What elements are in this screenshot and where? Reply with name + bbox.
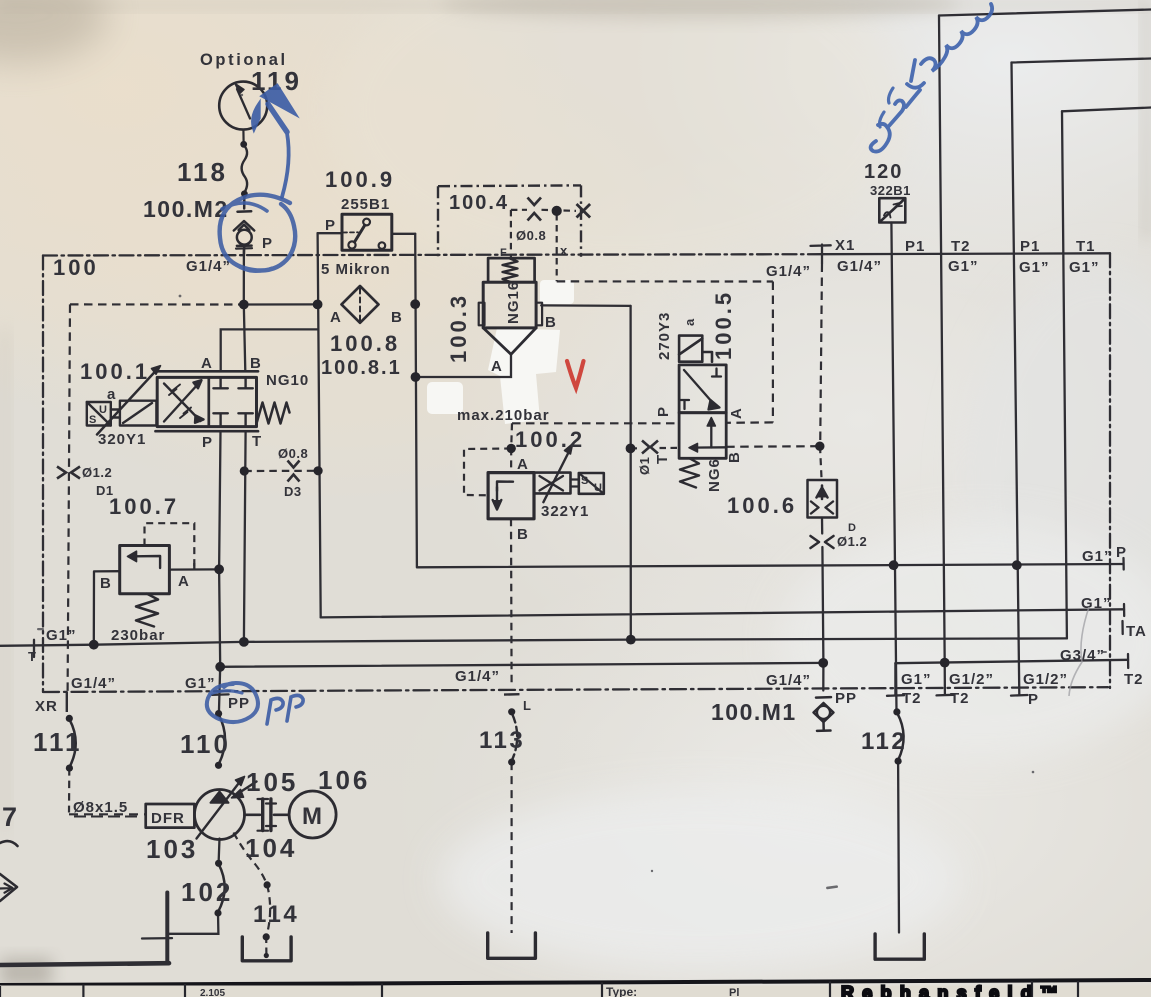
svg-text:100.M2: 100.M2 xyxy=(143,196,229,222)
wire system boundary bottom edge xyxy=(43,687,1108,692)
hose 113 xyxy=(512,714,517,761)
svg-text:G1”: G1” xyxy=(46,627,77,644)
wire hose 112 to tank 112 xyxy=(897,761,900,932)
wire riser x=630 down to tank line xyxy=(629,306,632,640)
svg-text:100.3: 100.3 xyxy=(446,293,471,363)
wire pilot line inside 100.4 (orifice to plug X) xyxy=(511,210,576,211)
filter 100.8 / 100.8.1 xyxy=(342,286,379,323)
blue pen circle around port PP xyxy=(207,683,258,722)
paper specks xyxy=(37,94,1107,890)
svg-text:G1/4”: G1/4” xyxy=(837,258,882,275)
svg-text:Ø8x1.5: Ø8x1.5 xyxy=(73,799,128,816)
valve 100.1 spring xyxy=(257,403,290,424)
wire 100.3 port A line xyxy=(415,354,511,377)
wire filter line y=304 xyxy=(244,303,318,305)
svg-text:G1”: G1” xyxy=(1019,259,1050,276)
wire system boundary 100 dash-dot top edge xyxy=(43,254,822,255)
svg-text:max.210bar: max.210bar xyxy=(457,407,550,424)
valve 100.1 proportional solenoid xyxy=(111,401,157,426)
measuring coupling 100.M1 xyxy=(814,697,834,731)
svg-text:M: M xyxy=(302,803,322,830)
svg-text:S: S xyxy=(89,414,96,426)
svg-text:XR: XR xyxy=(35,698,58,715)
svg-text:100.8: 100.8 xyxy=(330,331,400,356)
svg-text:100.8.1: 100.8.1 xyxy=(321,357,402,379)
svg-text:B: B xyxy=(545,314,557,331)
wire valve 100.1 port T drop to tank line xyxy=(244,431,246,642)
svg-text:NG6: NG6 xyxy=(706,458,723,492)
svg-text:112: 112 xyxy=(861,728,907,755)
port T tick far left on tank line xyxy=(33,640,35,657)
blue pen arrow pointing at gauge xyxy=(253,86,294,197)
svg-text:P: P xyxy=(655,406,672,417)
svg-text:G1/4”: G1/4” xyxy=(766,672,811,689)
svg-text:D3: D3 xyxy=(284,484,302,499)
svg-text:100.9: 100.9 xyxy=(325,167,395,192)
svg-text:P1: P1 xyxy=(905,238,925,255)
svg-text:P: P xyxy=(202,434,213,451)
wire pilot T branch with orifice 1 to valve 100.5 xyxy=(631,447,680,450)
svg-text:T2: T2 xyxy=(1124,671,1144,688)
orifice D1 on XR line xyxy=(57,467,80,479)
svg-text:a: a xyxy=(107,386,116,403)
pressure relief valve 100.7 xyxy=(120,546,170,627)
svg-text:100.4: 100.4 xyxy=(449,192,509,214)
svg-text:100.6: 100.6 xyxy=(727,493,797,518)
wire 100.2 port A dashed xyxy=(510,448,512,472)
wire pump case drain dashed to hose 114 xyxy=(234,833,267,885)
pressure switch 100.9 255B1 xyxy=(342,214,392,250)
wire filter A lead / return riser x=318 xyxy=(318,233,321,617)
hose 111 xyxy=(70,720,76,768)
wire ports header line X1 P1 T2 P1 T1 xyxy=(822,252,1110,255)
port G1/4 tick under 100.M2 xyxy=(236,247,252,250)
svg-text:2.105: 2.105 xyxy=(200,988,225,997)
svg-text:PP: PP xyxy=(835,690,857,707)
blue handwriting top right xyxy=(871,4,993,152)
orifice D3 symbol xyxy=(288,461,300,482)
title block strip at bottom xyxy=(0,980,1151,997)
wire 100.6 drop to collector and measuring port 100.M1 xyxy=(822,518,823,691)
svg-text:Ø1: Ø1 xyxy=(637,457,652,475)
svg-text:A: A xyxy=(517,456,529,473)
svg-text:100.2: 100.2 xyxy=(515,427,585,452)
svg-text:111: 111 xyxy=(33,727,83,757)
valve 100.1 solenoid connector S/U xyxy=(87,402,111,426)
svg-text:110: 110 xyxy=(180,729,231,759)
svg-text:PP: PP xyxy=(228,695,250,712)
wire X1 pilot dashed drop to 100.6 xyxy=(820,264,822,446)
svg-text:A: A xyxy=(728,407,745,419)
wire valve 100.1 port A riser and jog xyxy=(221,329,318,371)
orifice 1 symbol xyxy=(642,441,658,454)
svg-text:G1”: G1” xyxy=(1081,595,1112,612)
svg-text:320Y1: 320Y1 xyxy=(98,431,146,448)
svg-text:B: B xyxy=(391,309,403,326)
wire hose 114 dashed xyxy=(266,885,270,937)
svg-text:P: P xyxy=(1116,544,1127,561)
port L tick xyxy=(504,693,520,696)
wire valve 100.5 port B dashed to 100.6 xyxy=(726,445,820,448)
pressure switch 120 322B1 xyxy=(879,198,905,222)
wire measuring port M2 drop G1/4 xyxy=(243,249,245,305)
nested rectangle 1 left edge down to T2 junction xyxy=(939,16,945,663)
svg-text:NG16: NG16 xyxy=(505,281,522,324)
wire suction pipe elbow into tank xyxy=(167,913,218,934)
wire T2 drop from G3/4 junction xyxy=(944,663,947,695)
svg-text:P1: P1 xyxy=(1020,238,1040,255)
arrow marker for 105 coupling xyxy=(237,782,257,795)
svg-text:7: 7 xyxy=(2,802,17,832)
svg-text:G1/4”: G1/4” xyxy=(455,668,500,685)
wire 100.2 vent pilot dashed box xyxy=(464,449,511,496)
svg-text:G1/4”: G1/4” xyxy=(71,675,116,692)
electric motor 106 xyxy=(289,791,336,838)
wire tank line G1 (y=641) full width xyxy=(0,638,1067,645)
svg-text:100.7: 100.7 xyxy=(109,494,179,519)
svg-text:113: 113 xyxy=(479,727,525,754)
port G1 tick right end of return line xyxy=(1123,604,1125,616)
svg-text:5 Mikron: 5 Mikron xyxy=(321,261,391,278)
svg-text:P: P xyxy=(262,235,273,252)
svg-text:U: U xyxy=(594,482,602,494)
svg-text:G1”: G1” xyxy=(185,675,216,692)
svg-text:Ø0.8: Ø0.8 xyxy=(516,228,546,243)
hose 112 xyxy=(897,713,903,760)
wire pilot F dashed from 100.4 orifice to 100.3 spring xyxy=(510,210,512,258)
wire 100.7 port B to tank line xyxy=(94,571,120,645)
svg-text:B: B xyxy=(517,526,529,543)
svg-text:G1”: G1” xyxy=(1082,548,1113,565)
wire 100.7 port A to pressure riser xyxy=(169,568,218,570)
wire filter B riser down to pressure line x=416 xyxy=(415,234,417,568)
wire orifice D3 dashed branch xyxy=(244,470,318,472)
tank level tick xyxy=(142,937,172,940)
white-out correction patches xyxy=(427,280,574,424)
wire pressure switch 100.9 right lead xyxy=(392,233,415,235)
svg-text:322B1: 322B1 xyxy=(870,183,911,198)
svg-text:L: L xyxy=(523,698,531,713)
svg-text:a: a xyxy=(682,318,697,326)
svg-text:T: T xyxy=(28,649,36,664)
throttle check valve 100.6 xyxy=(808,480,838,518)
svg-text:B: B xyxy=(250,355,262,372)
tank under hose 112 xyxy=(875,934,924,959)
DFR controller box xyxy=(146,804,195,828)
hose 110 xyxy=(219,715,226,765)
solenoid valve 100.5 body xyxy=(679,336,726,459)
wire system boundary 100 left edge xyxy=(42,256,44,692)
svg-text:G1/2”: G1/2” xyxy=(949,671,994,688)
svg-text:103: 103 xyxy=(146,834,198,864)
tank bottom-left wall thick xyxy=(0,963,169,965)
wire pilot relief dashed (max.210bar) from 100.2 A to 100.5 P xyxy=(512,422,679,424)
wire mid collector line (y=665) xyxy=(220,663,823,667)
svg-text:A: A xyxy=(330,309,342,326)
nested rectangle 1 top xyxy=(939,10,1151,16)
wire hose 113 dashed drop to tank xyxy=(511,762,513,933)
wire T2 port drop at x=895 xyxy=(894,663,896,695)
port PP tick on boundary xyxy=(212,693,229,696)
wire 100.2 port B dashed drop to tank line and port L xyxy=(510,519,513,684)
wire from pressure switch 120 down to hose 112 xyxy=(891,223,896,712)
orifice 1.2 under 100.6 xyxy=(811,536,834,548)
svg-text:DFR: DFR xyxy=(151,810,185,827)
wire dash-dot riser at right end of ports line xyxy=(1109,253,1111,688)
svg-text:A: A xyxy=(201,355,213,372)
hose 102 xyxy=(218,864,225,912)
orifice 0.8 symbol in 100.4 xyxy=(528,198,542,221)
svg-text:T1: T1 xyxy=(1076,238,1096,255)
svg-text:x: x xyxy=(560,243,568,258)
wire XR load-sense dashed riser with inner dashed top edge xyxy=(70,303,244,305)
hose 118 xyxy=(242,145,247,193)
svg-text:322Y1: 322Y1 xyxy=(541,503,589,520)
port P G1 tick right end of pressure line xyxy=(1122,558,1124,570)
valve 100.5 return spring xyxy=(680,458,699,487)
svg-text:Type:: Type: xyxy=(606,985,637,997)
blue handwritten PP xyxy=(267,695,303,724)
svg-text:G1/4”: G1/4” xyxy=(766,263,811,280)
svg-text:TA: TA xyxy=(1126,623,1147,640)
svg-text:U: U xyxy=(99,404,107,416)
svg-text:S: S xyxy=(581,475,588,487)
svg-text:255B1: 255B1 xyxy=(341,196,390,213)
svg-text:G1/4”: G1/4” xyxy=(186,258,231,275)
port T2 tick right end of G3/4 line xyxy=(1127,654,1129,668)
svg-text:Ø0.8: Ø0.8 xyxy=(278,446,308,461)
svg-text:T2: T2 xyxy=(902,690,922,707)
wire 100.3 port B line to riser x=630 xyxy=(541,304,630,307)
wire 100.7 vent pilot dashed xyxy=(145,523,195,566)
svg-text:100: 100 xyxy=(53,255,99,280)
valve 100.5 position symbols xyxy=(680,369,726,453)
svg-text:A: A xyxy=(178,573,190,590)
nested rectangle 3 left edge joining tank line xyxy=(1062,111,1067,638)
svg-text:G1”: G1” xyxy=(948,258,979,275)
svg-text:230bar: 230bar xyxy=(111,627,165,644)
pressure gauge 119 xyxy=(219,82,267,142)
wire pressure switch 100.9 left lead xyxy=(318,232,342,234)
svg-text:NG10: NG10 xyxy=(266,372,309,389)
svg-text:T2: T2 xyxy=(951,238,971,255)
svg-text:P: P xyxy=(325,217,336,234)
wire pump suction drop xyxy=(217,839,220,864)
svg-text:114: 114 xyxy=(253,901,299,928)
nested rectangle 2 top xyxy=(1012,59,1151,63)
svg-text:G1”: G1” xyxy=(901,671,932,688)
wire hose 111 lower dashed to DFR control (load sensing) xyxy=(68,768,71,812)
partial component at left edge (cut off) xyxy=(0,841,18,901)
directional valve 100.1 body xyxy=(156,371,259,431)
shaft coupling 104/105 xyxy=(245,799,290,831)
wire valve 100.1 port B riser xyxy=(244,305,246,372)
svg-text:120: 120 xyxy=(864,161,903,183)
wire pressure line P G1 (y=567) xyxy=(417,564,1124,567)
valve 100.1 proportional arrow xyxy=(97,370,157,435)
faint scratch near tank 112 xyxy=(1069,607,1089,696)
tank under hose 113 xyxy=(488,933,536,958)
boundary box 100.4 dash-dot xyxy=(438,185,581,256)
nested rectangle 3 top xyxy=(1062,108,1151,112)
svg-text:Ø1.2: Ø1.2 xyxy=(837,534,867,549)
proportional relief valve 100.2 xyxy=(488,444,604,519)
svg-text:118: 118 xyxy=(177,157,228,187)
svg-text:105: 105 xyxy=(246,767,298,797)
svg-text:X1: X1 xyxy=(835,237,855,254)
wire G3/4 T2 line xyxy=(895,660,1128,663)
svg-text:F: F xyxy=(500,247,507,259)
svg-text:102: 102 xyxy=(181,877,233,907)
svg-text:106: 106 xyxy=(318,765,370,795)
svg-text:Ø1.2: Ø1.2 xyxy=(82,465,112,480)
svg-text:T2: T2 xyxy=(950,690,970,707)
wire pilot x dashed path to valve 100.5 port A xyxy=(556,214,558,281)
underline dashes of hose size label xyxy=(74,816,142,818)
svg-text:G1”: G1” xyxy=(1069,259,1100,276)
measuring coupling 100.M2 xyxy=(234,196,254,256)
tank suction pipe thick xyxy=(165,893,169,964)
blue pen circle around 100.M2 xyxy=(220,195,296,272)
svg-text:104: 104 xyxy=(245,833,297,863)
valve 100.1 blocked position T symbols xyxy=(213,377,252,426)
cartridge valve 100.3 with pilot spring xyxy=(479,258,542,354)
port TA tick xyxy=(1121,621,1123,634)
wire return line G1 (y=614) xyxy=(321,609,1124,617)
pump 103 variable displacement xyxy=(195,777,245,840)
port XR tick xyxy=(66,692,68,713)
svg-text:T: T xyxy=(252,433,262,450)
svg-text:100.5: 100.5 xyxy=(711,290,736,360)
svg-text:B: B xyxy=(726,451,743,463)
svg-text:B: B xyxy=(100,575,112,592)
svg-text:G1/2”: G1/2” xyxy=(1023,671,1068,688)
tank 114 xyxy=(242,937,291,961)
wire valve 100.1 port P drop (pump pressure riser) xyxy=(219,431,221,713)
svg-text:100.M1: 100.M1 xyxy=(711,699,797,725)
plug X symbol xyxy=(577,204,591,218)
port X1 tick xyxy=(811,245,831,264)
svg-text:A: A xyxy=(491,358,503,375)
red check mark V xyxy=(567,361,584,388)
svg-text:P: P xyxy=(1028,691,1039,708)
svg-text:D: D xyxy=(848,522,856,534)
valve 100.1 crossed arrows position xyxy=(164,380,204,423)
nested rectangle 2 left edge down to P port xyxy=(1012,63,1020,695)
svg-text:100.1: 100.1 xyxy=(80,359,150,384)
svg-text:Pl: Pl xyxy=(729,987,739,997)
svg-text:T: T xyxy=(654,454,671,464)
svg-text:270Y3: 270Y3 xyxy=(656,312,673,360)
